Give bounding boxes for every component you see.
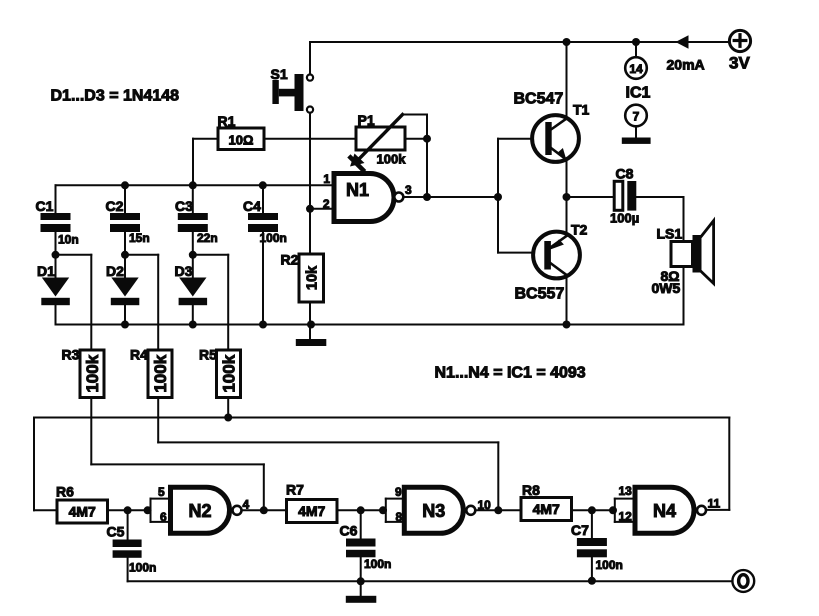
svg-text:100k: 100k bbox=[377, 152, 407, 167]
svg-text:D2: D2 bbox=[106, 263, 124, 279]
svg-text:T2: T2 bbox=[571, 222, 588, 238]
svg-text:C1: C1 bbox=[36, 198, 54, 214]
svg-text:C2: C2 bbox=[106, 198, 124, 214]
svg-text:D1: D1 bbox=[37, 263, 55, 279]
svg-text:100n: 100n bbox=[129, 561, 156, 575]
svg-text:5: 5 bbox=[158, 485, 165, 499]
svg-text:4M7: 4M7 bbox=[298, 503, 325, 519]
svg-text:1: 1 bbox=[323, 172, 330, 186]
svg-text:100n: 100n bbox=[596, 558, 623, 572]
svg-text:T1: T1 bbox=[573, 102, 590, 118]
svg-text:BC547: BC547 bbox=[514, 91, 564, 108]
svg-text:7: 7 bbox=[633, 109, 640, 123]
svg-text:R5: R5 bbox=[199, 347, 217, 363]
svg-text:C8: C8 bbox=[616, 166, 634, 182]
svg-text:C6: C6 bbox=[340, 523, 358, 539]
svg-text:3V: 3V bbox=[729, 54, 750, 73]
svg-text:R4: R4 bbox=[130, 347, 148, 363]
svg-text:R3: R3 bbox=[62, 347, 80, 363]
svg-text:14: 14 bbox=[629, 62, 643, 76]
svg-text:BC557: BC557 bbox=[515, 286, 565, 303]
svg-text:IC1: IC1 bbox=[626, 85, 651, 102]
svg-text:R8: R8 bbox=[522, 482, 540, 498]
svg-text:LS1: LS1 bbox=[657, 226, 683, 242]
svg-text:4M7: 4M7 bbox=[69, 504, 96, 520]
svg-text:N3: N3 bbox=[422, 501, 445, 521]
svg-text:N1...N4 = IC1 = 4093: N1...N4 = IC1 = 4093 bbox=[435, 365, 586, 382]
svg-text:N2: N2 bbox=[188, 501, 211, 521]
svg-text:100k: 100k bbox=[83, 354, 102, 392]
svg-text:C7: C7 bbox=[571, 522, 589, 538]
svg-text:9: 9 bbox=[395, 485, 402, 499]
svg-text:100k: 100k bbox=[220, 354, 239, 392]
svg-text:D1...D3 = 1N4148: D1...D3 = 1N4148 bbox=[51, 88, 180, 105]
svg-text:11: 11 bbox=[708, 497, 721, 511]
svg-text:0W5: 0W5 bbox=[652, 280, 681, 296]
svg-text:R6: R6 bbox=[56, 484, 74, 500]
svg-text:10n: 10n bbox=[58, 233, 79, 247]
svg-text:4M7: 4M7 bbox=[533, 501, 560, 517]
svg-text:10Ω: 10Ω bbox=[229, 133, 254, 148]
svg-text:12: 12 bbox=[619, 510, 633, 524]
svg-text:S1: S1 bbox=[271, 66, 288, 82]
svg-text:N4: N4 bbox=[653, 501, 676, 521]
svg-text:6: 6 bbox=[160, 510, 167, 524]
svg-text:P1: P1 bbox=[358, 112, 375, 128]
svg-text:20mA: 20mA bbox=[667, 57, 705, 73]
svg-text:C3: C3 bbox=[175, 198, 193, 214]
svg-text:R1: R1 bbox=[218, 113, 236, 129]
svg-text:100µ: 100µ bbox=[610, 211, 639, 226]
svg-text:100k: 100k bbox=[151, 354, 170, 392]
svg-text:13: 13 bbox=[619, 484, 633, 498]
svg-text:15n: 15n bbox=[129, 231, 150, 245]
svg-text:R7: R7 bbox=[286, 482, 304, 498]
svg-text:10k: 10k bbox=[305, 265, 321, 290]
svg-text:D3: D3 bbox=[175, 263, 193, 279]
svg-text:22n: 22n bbox=[197, 231, 218, 245]
svg-text:8: 8 bbox=[396, 510, 403, 524]
svg-text:R2: R2 bbox=[281, 252, 299, 268]
svg-text:3: 3 bbox=[405, 183, 412, 197]
svg-text:N1: N1 bbox=[346, 180, 369, 200]
svg-text:C5: C5 bbox=[107, 524, 125, 540]
svg-text:100n: 100n bbox=[260, 231, 287, 245]
svg-text:C4: C4 bbox=[243, 198, 261, 214]
svg-text:100n: 100n bbox=[364, 557, 391, 571]
